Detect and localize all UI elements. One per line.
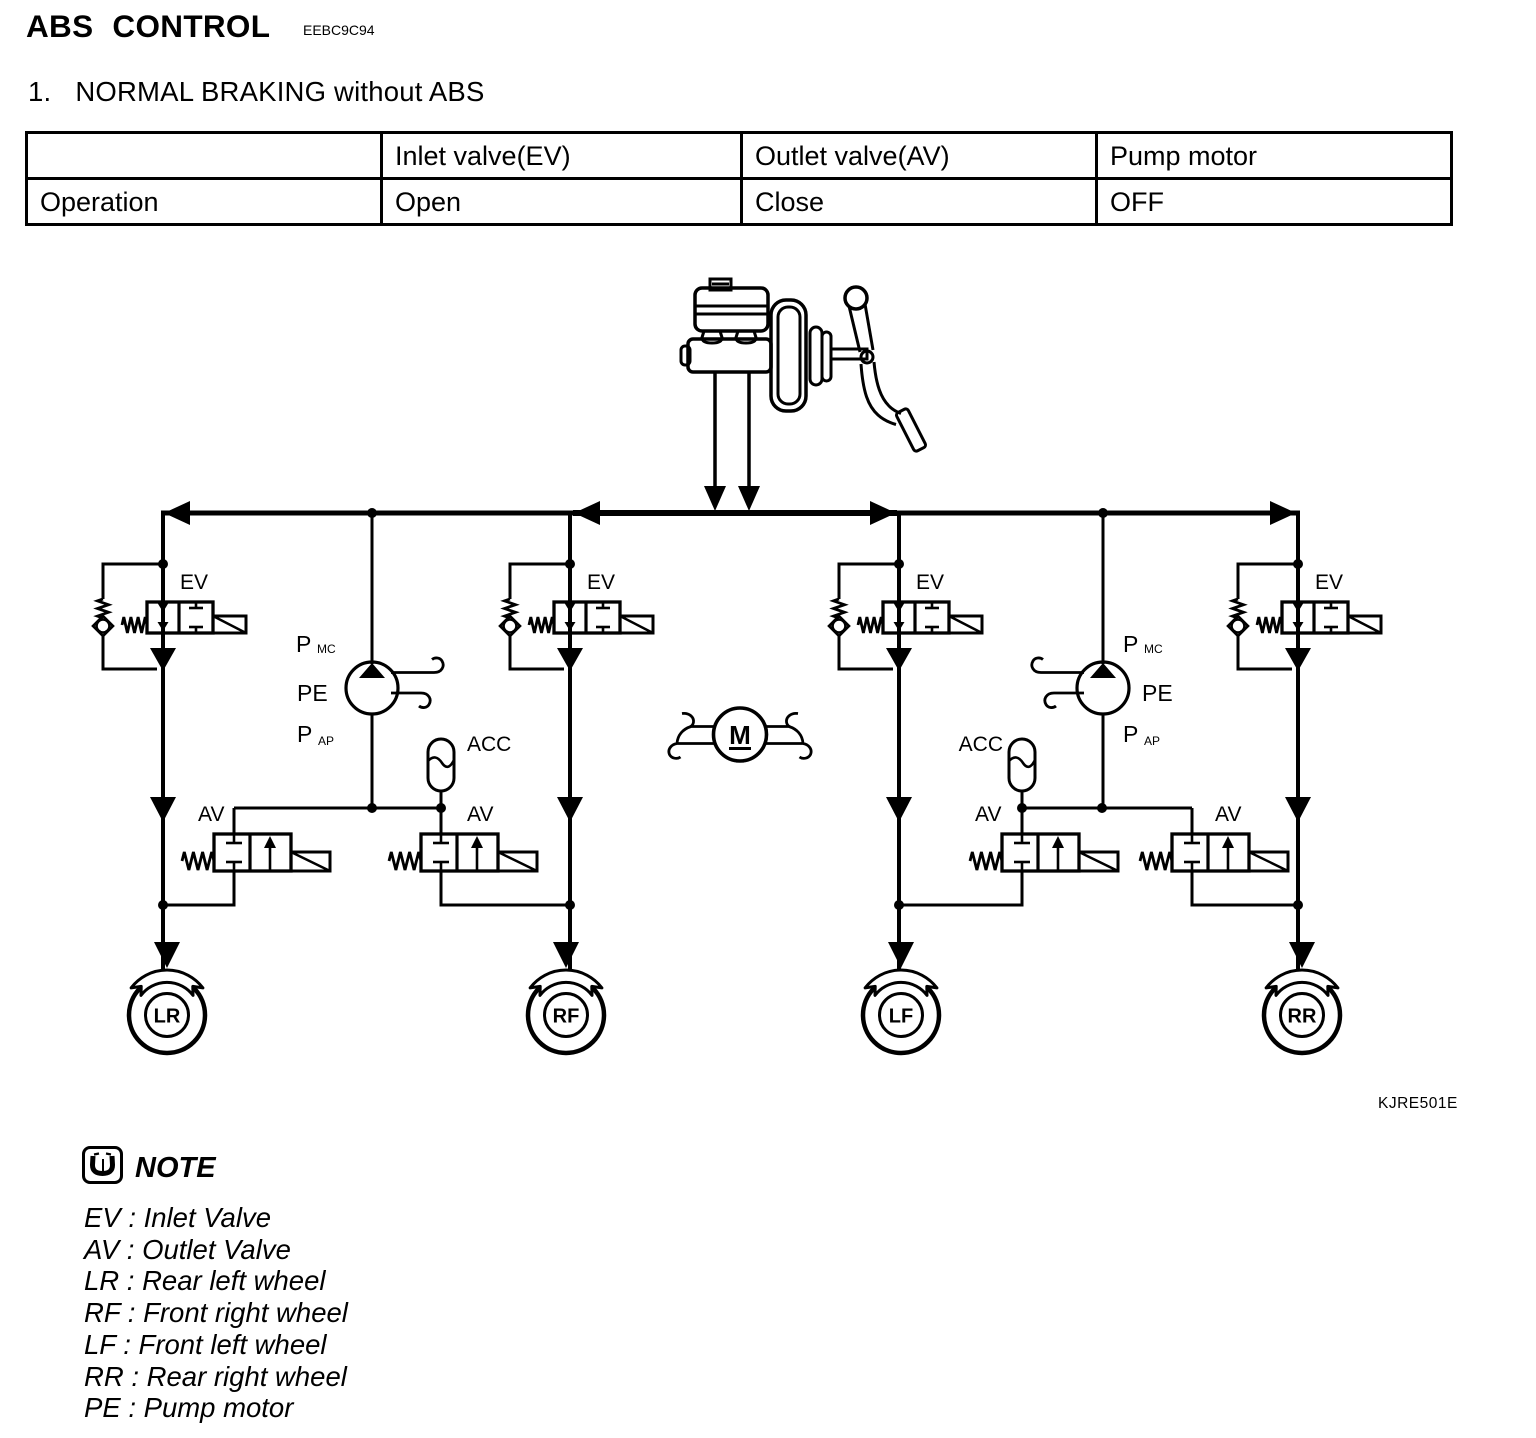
svg-text:AV: AV <box>1215 803 1241 826</box>
bus arrow right (to RR branch) <box>1270 501 1296 525</box>
node: LF bypass junction <box>894 559 904 569</box>
solenoid of AV (LR) <box>291 852 330 871</box>
wire: AV return to RF line <box>441 871 570 905</box>
svg-text:EV: EV <box>916 571 944 594</box>
inlet valve EV (RF) <box>554 602 620 633</box>
spring of EV (LR) <box>122 617 147 633</box>
svg-text:EV: EV <box>180 571 208 594</box>
node: RF bypass junction <box>565 559 575 569</box>
wire: ACC (right) stem <box>1021 791 1024 808</box>
svg-text:P: P <box>1123 721 1138 747</box>
pump left drive coupling <box>391 658 443 673</box>
solenoid of EV (LR) <box>213 616 246 633</box>
svg-text:P: P <box>297 721 312 747</box>
wire: LR main branch <box>161 513 165 970</box>
spring of AV (LF) <box>970 852 1002 870</box>
node: left feed / ACC stem <box>436 803 446 813</box>
node: LR bypass junction <box>158 559 168 569</box>
spring of EV (RR) <box>1257 617 1282 633</box>
flow arrow above AV row (RR) <box>1285 797 1311 822</box>
motor coupling left <box>682 713 715 726</box>
node: right feed / ACC stem <box>1017 803 1027 813</box>
brake pedal clevis <box>861 351 873 363</box>
solenoid of AV (LF) <box>1079 852 1118 871</box>
wire: feed stub to outlet valve AV (LF) <box>1021 808 1024 834</box>
node: AV return / RR line <box>1293 900 1303 910</box>
wire: bus to pump left <box>371 513 374 664</box>
outlet valve AV (RF) <box>421 834 498 871</box>
svg-text:PE: PE <box>297 680 328 706</box>
node: bus / right pump line <box>1098 508 1108 518</box>
wire: left AV feed line <box>234 807 441 810</box>
accumulator ACC (right) <box>1009 739 1035 791</box>
flow arrow below EV (RF) <box>557 648 583 671</box>
code EEBC9C94 <box>303 22 375 38</box>
flow arrow below EV (RR) <box>1285 648 1311 671</box>
wire: bus to pump right <box>1102 513 1105 664</box>
svg-text:EV: EV <box>1315 571 1343 594</box>
title ABS CONTROL <box>26 8 270 45</box>
legend <box>84 1202 348 1424</box>
svg-text:AV: AV <box>198 803 224 826</box>
svg-text:RF: RF <box>553 1006 580 1028</box>
pump motor M <box>714 708 767 761</box>
wire: MC outlet right <box>747 372 751 506</box>
solenoid of EV (LF) <box>949 616 982 633</box>
reservoir outlet ports <box>702 331 722 343</box>
wheel LR <box>129 977 205 1053</box>
solenoid of EV (RF) <box>620 616 653 633</box>
node: AV return / LF line <box>894 900 904 910</box>
check valve bypass of inlet valve EV (RR) <box>1238 564 1298 599</box>
section heading <box>28 76 485 108</box>
brake pedal pivot <box>845 287 867 309</box>
wire: RF main branch <box>568 513 572 970</box>
wheel RR <box>1264 977 1340 1053</box>
svg-text:EV: EV <box>587 571 615 594</box>
svg-text:P: P <box>296 631 311 657</box>
flow arrow above AV row (RF) <box>557 797 583 822</box>
wire: feed stub to outlet valve AV (LR) <box>233 808 236 834</box>
svg-text:LF: LF <box>889 1006 913 1028</box>
wire: right AV feed line <box>1022 807 1192 810</box>
svg-text:AP: AP <box>318 734 334 748</box>
bus arrow (to LF branch) <box>870 501 896 525</box>
svg-text:AV: AV <box>467 803 493 826</box>
flow arrow below EV (LR) <box>150 648 176 671</box>
flow arrow to wheel RF <box>553 942 579 968</box>
bus arrow (to RF branch) <box>574 501 600 525</box>
spring of EV (RF) <box>529 617 554 633</box>
wire: main supply bus <box>161 511 1300 516</box>
wire: LF main branch <box>897 513 901 970</box>
wire: AV return to RR line <box>1192 871 1298 905</box>
motor coupling right <box>764 713 811 758</box>
pump right drive coupling <box>1032 658 1084 673</box>
master cylinder reservoir cap <box>710 279 731 290</box>
booster pushrod <box>831 349 867 359</box>
wire: ACC (left) stem <box>440 791 443 808</box>
check valve bypass of inlet valve EV (RF) <box>510 564 570 599</box>
wheel RF <box>528 977 604 1053</box>
node: AV return / RF line <box>565 900 575 910</box>
master cylinder body <box>688 339 771 372</box>
inlet valve EV (LR) <box>147 602 213 633</box>
solenoid of AV (RF) <box>498 852 537 871</box>
wire: feed stub to outlet valve AV (RF) <box>440 808 443 834</box>
solenoid of AV (RR) <box>1249 852 1288 871</box>
wire: pump right outlet <box>1102 714 1105 808</box>
spring of AV (LR) <box>182 852 214 870</box>
inlet valve EV (LF) <box>883 602 949 633</box>
brake booster <box>771 300 806 411</box>
accumulator ACC (left) <box>428 739 454 791</box>
wire: AV return to LF line <box>899 871 1022 905</box>
wire: MC outlet left <box>713 372 717 506</box>
spring of AV (RR) <box>1140 852 1172 870</box>
outlet valve AV (RR) <box>1172 834 1249 871</box>
booster discs <box>810 327 822 385</box>
svg-text:ACC: ACC <box>959 733 1003 756</box>
brake pedal pad <box>895 408 926 452</box>
svg-text:RR: RR <box>1288 1006 1317 1028</box>
node: RR bypass junction <box>1293 559 1303 569</box>
wire: AV return to LR line <box>163 871 234 905</box>
bus arrow left (to LR branch) <box>164 501 190 525</box>
outlet valve AV (LF) <box>1002 834 1079 871</box>
svg-text:MC: MC <box>317 642 336 656</box>
svg-text:AV: AV <box>975 803 1001 826</box>
node: right feed / pump outlet <box>1097 803 1107 813</box>
NOTE heading <box>135 1152 216 1185</box>
operation table <box>25 131 1453 226</box>
wire: pump left outlet <box>371 714 374 808</box>
svg-text:AP: AP <box>1144 734 1160 748</box>
node: AV return / LR line <box>158 900 168 910</box>
solenoid of EV (RR) <box>1348 616 1381 633</box>
node: bus / left pump line <box>367 508 377 518</box>
node: left feed / pump outlet <box>367 803 377 813</box>
flow arrow above AV row (LR) <box>150 797 176 822</box>
wheel LF <box>863 977 939 1053</box>
svg-text:MC: MC <box>1144 642 1163 656</box>
svg-text:ACC: ACC <box>467 733 511 756</box>
svg-text:P: P <box>1123 631 1138 657</box>
spring of AV (RF) <box>389 852 421 870</box>
pump PE (right) <box>1077 662 1129 714</box>
wire: feed stub to outlet valve AV (RR) <box>1191 808 1194 834</box>
flow arrow to wheel LF <box>888 942 914 968</box>
spring of EV (LF) <box>858 617 883 633</box>
wire: RR main branch <box>1296 513 1300 970</box>
svg-text:KJRE501E: KJRE501E <box>1378 1095 1458 1112</box>
flow arrow below EV (LF) <box>886 648 912 671</box>
svg-text:PE: PE <box>1142 680 1173 706</box>
flow arrow to wheel LR <box>154 942 180 968</box>
svg-text:LR: LR <box>154 1006 181 1028</box>
svg-text:M: M <box>729 720 751 750</box>
NOTE icon <box>82 1146 123 1184</box>
brake pedal arm <box>849 306 860 352</box>
flow arrow to wheel RR <box>1289 942 1315 968</box>
check valve bypass of inlet valve EV (LF) <box>839 564 899 599</box>
pump PE (left) <box>346 662 398 714</box>
master cylinder reservoir <box>695 288 768 331</box>
flow arrow above AV row (LF) <box>886 797 912 822</box>
outlet valve AV (LR) <box>214 834 291 871</box>
check valve bypass of inlet valve EV (LR) <box>103 564 163 599</box>
inlet valve EV (RR) <box>1282 602 1348 633</box>
